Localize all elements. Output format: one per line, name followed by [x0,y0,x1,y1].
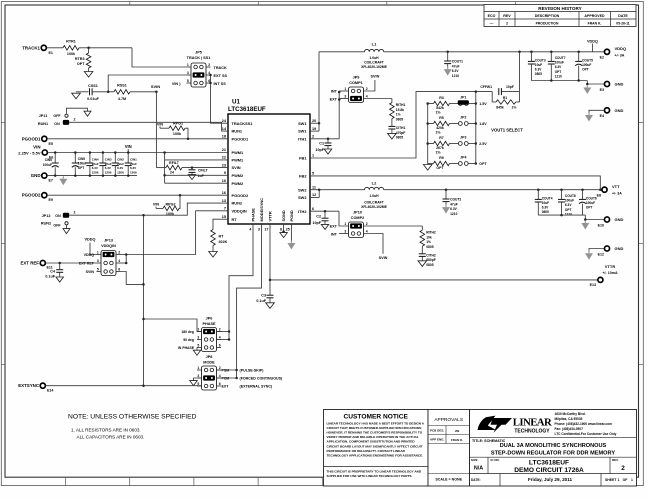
svg-text:PGND: PGND [289,210,294,221]
wire U1 ITH2 pin6 [310,210,339,212]
svg-text:R7: R7 [439,136,444,140]
wire U1 FB2 pin5 to VTT [310,176,600,190]
wire RSS1 to SVIN node [130,91,156,93]
svg-text:17: 17 [264,228,268,232]
svg-text:JP13: JP13 [104,239,113,243]
capacitor COUT4 [537,190,539,199]
ground below E4 stub [588,113,590,116]
svg-text:CSS1: CSS1 [88,84,98,88]
svg-text:VOUT1 SELECT: VOUT1 SELECT [491,128,523,133]
svg-text:TRACK | SS1: TRACK | SS1 [187,56,211,60]
wire VTT rail right [384,189,602,191]
wire PGOOD1 to U1 pin18 [47,138,228,140]
resistor RTR3 [88,48,90,53]
svg-text:6.3V: 6.3V [452,69,460,73]
ground below JP6 pin5 [196,348,198,351]
ground below COUT2 rail [584,221,586,224]
svg-text:SW1: SW1 [298,121,307,126]
wire JP8 pins 2,4 bus [217,369,237,371]
svg-text:VDDQIN: VDDQIN [232,208,247,213]
svg-text:VTT: VTT [612,184,620,189]
wire VIN to PWM pins 22,9,10 [164,153,166,184]
svg-text:267k: 267k [436,146,444,150]
svg-text:JP8: JP8 [206,355,213,359]
svg-text:EXT SS: EXT SS [214,74,228,78]
ground bracket above JP11 OFF pin [67,108,88,114]
svg-text:PWM2: PWM2 [232,173,245,178]
svg-text:1.0uH: 1.0uH [369,194,379,198]
svg-text:JW: JW [455,429,460,433]
svg-text:6.3V: 6.3V [117,166,123,170]
svg-text:19: 19 [312,127,316,131]
svg-text:0805: 0805 [396,117,404,121]
svg-text:E10: E10 [598,223,604,227]
svg-text:VDDQ: VDDQ [85,238,96,242]
wire U1 SW2 pins to rail [310,189,319,191]
svg-text:RUN2: RUN2 [41,221,51,225]
svg-text:IC NO.: IC NO. [491,458,500,462]
wire ITH2 to JP10 [339,211,349,226]
resistor RITH1 [391,99,393,103]
svg-text:CIRCUIT BOARD LAYOUT MAY SIGNI: CIRCUIT BOARD LAYOUT MAY SIGNIFICANTLY A… [327,444,423,448]
svg-text:Fax: (408)434-0507: Fax: (408)434-0507 [555,427,584,431]
svg-text:9: 9 [224,171,226,175]
wire JP11 to U1 RUN1 pin14 [69,122,228,131]
svg-text:SVIN: SVIN [370,75,379,79]
capacitor CITH1 [388,125,395,127]
svg-text:20: 20 [312,119,316,123]
svg-text:1: 1 [312,154,314,158]
svg-text:ITH1: ITH1 [298,136,307,141]
svg-text:100k: 100k [173,132,182,136]
svg-text:23: 23 [222,163,226,167]
svg-text:1%: 1% [435,131,441,135]
svg-text:DATE:: DATE: [471,478,481,482]
svg-text:OPT: OPT [77,62,85,66]
ground on GND rail [62,176,64,179]
svg-text:6: 6 [219,382,221,386]
svg-text:6.3V: 6.3V [565,203,572,207]
svg-text:10pF: 10pF [312,221,321,225]
svg-text:TRACK: TRACK [214,66,228,70]
capacitor CIN5 [74,153,76,163]
svg-text:VIN: VIN [153,203,159,207]
capacitor COUT5 [578,52,580,61]
wire VTTR to turret E13 [270,279,598,281]
jumper JP9 COMP1 [349,87,364,103]
capacitor CIN4 [89,153,91,164]
node GND turret E3 [604,81,609,86]
svg-text:OPT: OPT [555,70,562,74]
svg-text:PHASE: PHASE [250,208,255,222]
svg-text:SVIN: SVIN [86,270,95,274]
svg-text:16: 16 [222,191,226,195]
wire EXT REF to JP13 pin3 [45,262,96,264]
svg-text:3: 3 [187,71,189,75]
wire FB1 bus [475,92,477,164]
svg-text:CFILT: CFILT [198,168,209,172]
title block part number row [487,457,489,473]
svg-text:C3: C3 [261,294,266,298]
svg-text:CITH1: CITH1 [396,126,406,130]
jumper JP13 VDDQIN [101,251,116,276]
wire SVIN vertical [155,92,157,168]
svg-text:10uF: 10uF [542,201,549,205]
svg-text:FRAN K.: FRAN K. [451,438,463,442]
svg-text:STEP-DOWN REGULATOR FOR DDR ME: STEP-DOWN REGULATOR FOR DDR MEMORY [491,450,615,456]
svg-text:GND: GND [31,173,41,178]
node PGOOD2 turret E9 [42,193,47,198]
svg-text:VERIFY PROPER AND RELIABLE OPE: VERIFY PROPER AND RELIABLE OPERATION IN … [327,435,419,439]
svg-text:C1: C1 [319,141,324,145]
svg-text:Friday, July 29, 2011: Friday, July 29, 2011 [528,477,573,482]
ground below CITH2 [418,261,427,267]
svg-text:1: 1 [618,478,620,482]
svg-text:6.3V: 6.3V [105,166,111,170]
svg-text:EXT: EXT [222,385,230,389]
svg-text:E13: E13 [590,283,596,287]
resistor RSS1 [114,90,130,95]
node GND turret E4 [604,108,609,113]
svg-text:1: 1 [187,63,189,67]
svg-text:2: 2 [506,21,508,25]
wire RTR1 to corner [79,47,132,49]
svg-text:22uF: 22uF [130,162,137,166]
svg-text:+/- 3A: +/- 3A [612,191,622,195]
svg-text:COUT2: COUT2 [450,198,461,202]
wire ITH1 riser to JP9 [338,92,340,139]
svg-text:CIN6: CIN6 [45,158,52,162]
svg-text:6.3V: 6.3V [535,68,542,72]
svg-text:RT: RT [219,235,225,239]
svg-text:0.1uF: 0.1uF [45,275,55,279]
svg-text:1206: 1206 [130,171,137,175]
svg-text:L1: L1 [372,41,377,46]
svg-text:TRACKSS1: TRACKSS1 [232,121,254,126]
svg-text:2: 2 [208,63,210,67]
wire JP10 pin4 to SVIN stub [364,234,384,254]
svg-text:GND: GND [615,108,624,113]
jumper JP3 [452,143,458,145]
resistor R3 [428,103,434,105]
svg-text:1%: 1% [435,111,441,115]
svg-text:R5: R5 [439,116,444,120]
svg-text:RTR1: RTR1 [66,40,76,44]
svg-text:PRODUCTION: PRODUCTION [536,21,559,25]
svg-text:R1: R1 [503,96,507,100]
svg-text:22uF: 22uF [117,162,124,166]
svg-text:4: 4 [366,94,368,98]
svg-text:JP6: JP6 [206,317,213,321]
ground below E12 stub [588,251,590,254]
title block frame [470,410,637,487]
svg-text:FB2: FB2 [299,174,307,179]
capacitor C2 [324,211,326,218]
svg-text:24: 24 [170,171,174,175]
svg-text:E1: E1 [49,51,53,55]
svg-text:7: 7 [224,207,226,211]
capacitor C3 [267,294,274,296]
ground below CFILT [188,175,196,180]
svg-text:VDDQ: VDDQ [587,39,598,43]
capacitor CITH2 [419,253,426,255]
svg-text:TECHNOLOGY APPLICATIONS ENGINE: TECHNOLOGY APPLICATIONS ENGINEERING FOR … [327,453,424,457]
svg-text:E12: E12 [598,252,604,256]
svg-text:542k: 542k [436,106,444,110]
svg-text:E3: E3 [600,88,604,92]
svg-text:ON: ON [54,122,60,126]
capacitor CIN3 [102,153,104,164]
wire GND rail [47,175,137,177]
svg-text:402K: 402K [219,240,228,244]
wire CSS1 to RSS1 [92,91,114,93]
resistor R1 [496,100,516,104]
svg-text:SVIN: SVIN [379,256,388,260]
svg-text:1: 1 [344,222,346,226]
svg-text:3: 3 [197,335,199,339]
svg-text:CIN4: CIN4 [92,157,99,161]
svg-text:ON: ON [55,214,61,218]
wire SGND pin to ground [283,224,285,232]
svg-text:+/- 10mA: +/- 10mA [602,271,617,275]
capacitor COUT2 [445,190,447,199]
svg-text:25: 25 [286,228,290,232]
svg-text:L2: L2 [372,180,377,185]
svg-text:OPT: OPT [586,206,593,210]
svg-text:COUT8: COUT8 [565,194,576,198]
ground below C1 [324,149,332,154]
svg-text:—: — [490,21,494,25]
svg-text:(PULSE-SKIP): (PULSE-SKIP) [240,369,265,373]
svg-text:APPROVED: APPROVED [584,14,605,18]
svg-text:LINEAR TECHNOLOGY HAS MADE A B: LINEAR TECHNOLOGY HAS MADE A BEST EFFORT… [327,422,425,426]
svg-text:PGOOD2: PGOOD2 [22,193,41,198]
jumper JP1 [452,103,458,105]
svg-text:LTC3618EUF: LTC3618EUF [228,106,266,113]
svg-text:1: 1 [197,366,199,370]
capacitor COUT6 [582,190,584,199]
svg-text:JP12: JP12 [42,214,51,218]
svg-text:2: 2 [366,87,368,91]
svg-text:1: 1 [97,250,99,254]
wire JP13 rows 1-2 to U1 VDDQIN pin7 [121,254,127,256]
svg-text:JP10: JP10 [353,210,362,214]
svg-text:TECHNOLOGY: TECHNOLOGY [514,428,550,434]
svg-text:2: 2 [312,135,314,139]
svg-text:8: 8 [280,228,282,232]
svg-text:VIN: VIN [33,145,40,150]
capacitor COUT8 [561,190,563,199]
svg-text:2: 2 [621,465,625,472]
wire PGOOD2 to U1 pin16 [47,194,228,196]
svg-text:SVIN: SVIN [232,165,241,170]
ground below COUT1 [447,67,449,70]
wire corner down to JP5 pin1 [132,48,187,67]
svg-text:RUN1: RUN1 [38,122,48,126]
svg-text:LTC Confidential-For Customer: LTC Confidential-For Customer Use Only [555,432,617,436]
svg-text:1206: 1206 [92,171,99,175]
svg-text:5: 5 [187,79,189,83]
wire VTT rail left [319,189,364,191]
svg-text:EXT: EXT [330,224,338,228]
jumper JP4 [452,163,458,165]
svg-text:JP5: JP5 [195,51,202,55]
svg-text:4: 4 [366,229,368,233]
svg-text:100uF: 100uF [78,162,87,166]
svg-text:1.5V: 1.5V [479,102,487,106]
wire bus to JP6 pin1 [144,319,202,332]
title block date row [499,474,501,487]
svg-text:10pF: 10pF [506,85,514,89]
svg-text:IN PHASE: IN PHASE [178,346,195,350]
ground below COUT2 [445,205,447,208]
svg-text:5: 5 [197,382,199,386]
svg-text:6: 6 [118,267,120,271]
svg-text:DEMO CIRCUIT 1726A: DEMO CIRCUIT 1726A [514,467,584,474]
svg-text:THIS CIRCUIT IS PROPRIETARY TO: THIS CIRCUIT IS PROPRIETARY TO LINEAR TE… [327,470,422,474]
svg-text:MODE: MODE [203,360,215,364]
svg-text:RUN2: RUN2 [232,201,243,206]
svg-text:E7: E7 [49,179,53,183]
svg-text:1%: 1% [396,113,401,117]
svg-text:PWM1: PWM1 [232,150,245,155]
svg-text:RFILT: RFILT [169,161,180,165]
svg-text:1.8V: 1.8V [479,122,487,126]
node VTT turret E8 [602,187,607,192]
svg-text:NOTE: UNLESS OTHERWISE SPECIFI: NOTE: UNLESS OTHERWISE SPECIFIED [68,414,197,421]
capacitor CIN1 [127,153,129,164]
svg-text:2: 2 [219,366,221,370]
svg-text:CIN2: CIN2 [117,157,124,161]
svg-text:N/A: N/A [474,466,483,472]
svg-text:6.3V: 6.3V [542,206,549,210]
svg-text:0805: 0805 [396,136,404,140]
svg-text:47uF: 47uF [450,202,458,206]
node GND turret E12 [604,246,609,251]
svg-text:1210: 1210 [450,212,458,216]
svg-text:TRACK1: TRACK1 [22,45,40,50]
wire VDDQ rail left [319,51,365,53]
border zone tick marks [129,2,131,5]
svg-text:0805: 0805 [426,245,434,249]
svg-text:SW1: SW1 [298,129,307,134]
svg-text:PSM: PSM [222,369,230,373]
svg-text:1206: 1206 [105,171,112,175]
capacitor CFILT [191,168,193,170]
svg-text:RT: RT [232,217,238,222]
node EXT REF turret E11 [40,260,45,265]
svg-text:JP3: JP3 [460,135,466,139]
svg-text:1%: 1% [512,106,517,110]
svg-text:6.3V: 6.3V [555,65,562,69]
wire CSS1 junction up to JP5 pin3 [108,75,186,92]
svg-text:RITH2: RITH2 [426,231,436,235]
svg-text:90 deg: 90 deg [183,338,194,342]
svg-text:VIN ): VIN ) [172,82,181,86]
svg-text:E9: E9 [49,198,53,202]
svg-text:100k: 100k [67,52,76,56]
svg-text:R9: R9 [439,156,444,160]
wire U1 RT pin15 to RT resistor [213,219,228,229]
svg-text:LINEAR: LINEAR [513,417,552,429]
svg-text:22: 22 [222,156,226,160]
svg-text:SCALE = NONE: SCALE = NONE [435,478,462,482]
svg-text:MODE/SYNC: MODE/SYNC [259,198,264,222]
wire R1 top to VDDQ rail [519,52,521,92]
svg-text:1.0uH: 1.0uH [369,56,379,60]
svg-text:COUT4: COUT4 [542,196,553,200]
node VDDQ turret E2 [604,49,609,54]
ground below COUT rail [586,85,588,88]
svg-text:1206: 1206 [117,171,124,175]
svg-text:470pF: 470pF [396,131,406,135]
inductor L1 [365,49,384,51]
approvals box [428,410,470,487]
node GND turret E7 [42,173,47,178]
inductor L2 [365,187,384,189]
svg-text:SVIN: SVIN [151,84,160,89]
svg-text:GND: GND [615,246,624,251]
wire JP5 pins 4,6 bus to U1 pin24 [211,75,229,123]
svg-text:3: 3 [197,374,199,378]
svg-text:1uF: 1uF [198,174,205,178]
svg-text:SUPPLIED FOR USE WITH LINEAR T: SUPPLIED FOR USE WITH LINEAR TECHNOLOGY … [327,474,413,478]
svg-text:Milpitas, CA 95035: Milpitas, CA 95035 [555,417,583,421]
svg-text:10: 10 [222,179,226,183]
svg-text:1: 1 [344,87,346,91]
svg-text:CIN3: CIN3 [105,157,112,161]
ground below RT [209,252,218,258]
ground below C3 [266,303,275,309]
svg-text:(EXTERNAL SYNC): (EXTERNAL SYNC) [240,385,273,389]
svg-text:CITH2: CITH2 [426,253,436,257]
svg-text:RPG2: RPG2 [165,203,175,207]
svg-text:U1: U1 [232,99,240,106]
svg-text:REVISION HISTORY: REVISION HISTORY [538,6,581,11]
svg-text:PGOOD2: PGOOD2 [232,193,249,198]
resistor RFILT [166,165,182,170]
revision history table [484,5,636,27]
svg-text:3: 3 [344,229,346,233]
svg-text:COMP1: COMP1 [349,81,363,85]
svg-text:VTTR: VTTR [605,264,616,269]
svg-text:5: 5 [312,172,314,176]
ground below C2 [321,224,329,229]
resistor RT [211,230,216,246]
svg-text:PWM2: PWM2 [232,181,245,186]
wire VTTR pin down [269,224,271,295]
svg-text:REV.: REV. [612,458,619,462]
svg-text:5: 5 [197,343,199,347]
svg-text:3: 3 [97,259,99,263]
customer notice box [324,410,429,487]
svg-text:6.3V: 6.3V [130,166,136,170]
svg-text:COUT3: COUT3 [535,58,546,62]
svg-text:E4: E4 [600,114,604,118]
svg-text:OFF: OFF [53,223,61,227]
capacitor CFFW1 [498,88,500,95]
svg-text:R3: R3 [439,96,444,100]
wire VIN rail to U1 pin21 [47,152,228,154]
wire JP12 to U1 RUN2 pin13 [69,203,228,215]
svg-text:JP4: JP4 [460,155,466,159]
wire COUT2 group ground rail [538,214,585,216]
svg-text:OPT: OPT [582,68,589,72]
svg-text:SHEET: SHEET [605,478,617,482]
ground below JP12 OFF pin [66,225,68,229]
op-amp U1 LTC3618EUF box [228,114,310,224]
wire U1 ITH1 pin2 [310,138,339,140]
